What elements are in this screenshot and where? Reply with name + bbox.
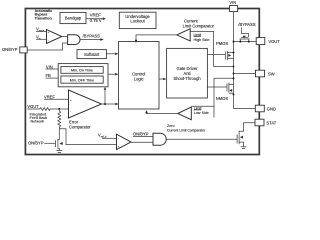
svg-text:SW: SW <box>268 72 275 77</box>
svg-text:GND: GND <box>267 107 276 112</box>
svg-text:VIN: VIN <box>46 64 53 69</box>
svg-text:-: - <box>70 109 71 113</box>
svg-text:/BYPASS: /BYPASS <box>238 22 255 27</box>
svg-text:VIN: VIN <box>229 0 236 5</box>
svg-text:ON/BYP: ON/BYP <box>28 140 44 145</box>
svg-text:FB: FB <box>46 73 52 78</box>
svg-text:Zero: Zero <box>167 124 175 128</box>
svg-text:VOUT: VOUT <box>27 104 39 109</box>
svg-text:High Side: High Side <box>194 38 210 42</box>
svg-text:-: - <box>118 136 119 140</box>
svg-text:Low Side: Low Side <box>194 111 209 115</box>
svg-text:Limit Comparator: Limit Comparator <box>183 23 215 28</box>
svg-text:ON/BYP: ON/BYP <box>2 47 18 52</box>
svg-text:STAT: STAT <box>266 121 276 126</box>
svg-text:VOUT: VOUT <box>268 39 280 44</box>
svg-text:PMOS: PMOS <box>216 41 228 46</box>
svg-text:Lockout: Lockout <box>130 19 145 24</box>
svg-text:Bandgap: Bandgap <box>65 16 82 21</box>
svg-text:/BYPASS: /BYPASS <box>83 34 100 39</box>
svg-text:Shoot-Through: Shoot-Through <box>173 76 201 81</box>
svg-text:Transition: Transition <box>35 16 52 20</box>
svg-text:Current Limit Comparator: Current Limit Comparator <box>167 129 206 133</box>
svg-text:0.75 V: 0.75 V <box>90 18 102 23</box>
svg-text:NMOS: NMOS <box>216 96 229 101</box>
svg-text:Min. OFF Time: Min. OFF Time <box>70 78 94 82</box>
svg-text:VREF: VREF <box>44 94 55 99</box>
svg-text:Min. On Time: Min. On Time <box>71 69 93 73</box>
svg-text:Softstart: Softstart <box>84 52 100 57</box>
svg-text:ON/BYP: ON/BYP <box>133 132 149 137</box>
svg-text:-: - <box>48 39 49 43</box>
svg-text:Network: Network <box>31 120 45 124</box>
svg-text:Comparator: Comparator <box>69 124 91 129</box>
svg-text:Logic: Logic <box>134 77 144 82</box>
